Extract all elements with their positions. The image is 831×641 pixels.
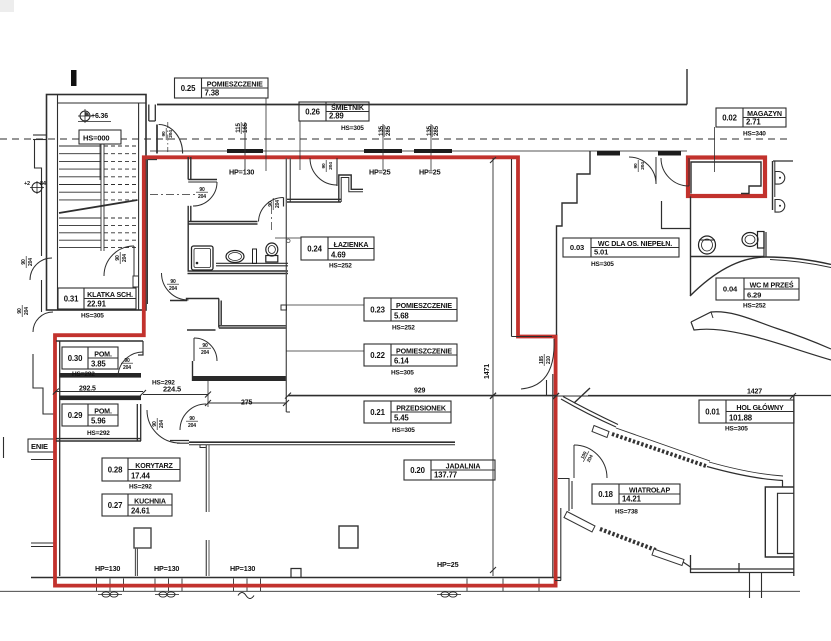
dim line 224.5 xyxy=(143,394,208,396)
window tick 3 xyxy=(430,124,432,170)
black wall right of red at wiatrolap xyxy=(560,508,562,581)
svg-text:204: 204 xyxy=(28,258,34,266)
wiatrolap upper curved wall xyxy=(561,399,616,427)
right outer wall top xyxy=(772,161,774,210)
svg-text:204: 204 xyxy=(328,162,334,170)
svg-text:0.02: 0.02 xyxy=(722,113,737,122)
svg-text:HP=25: HP=25 xyxy=(369,168,391,177)
glazing band long xyxy=(612,434,706,466)
window bar 2 xyxy=(364,149,402,153)
dim line 275 xyxy=(208,402,286,404)
wc south wall xyxy=(691,256,765,258)
left stub b xyxy=(31,542,54,544)
svg-text:0.27: 0.27 xyxy=(108,501,123,510)
svg-text:POM.: POM. xyxy=(94,350,112,358)
label 0.04 WC M PRZE xyxy=(716,278,799,300)
door room0.25 dim xyxy=(196,187,208,200)
thick bars divider bottom xyxy=(59,396,141,401)
wall y300 segment xyxy=(170,299,219,301)
svg-text:HS=305: HS=305 xyxy=(341,125,364,132)
svg-text:0.01: 0.01 xyxy=(705,407,720,416)
door room0.25 jamb xyxy=(188,179,217,181)
svg-text:0.23: 0.23 xyxy=(370,305,385,314)
kitchen partition lower xyxy=(205,540,207,576)
svg-text:JADALNIA: JADALNIA xyxy=(446,462,481,470)
svg-text:HS=305: HS=305 xyxy=(725,426,748,433)
washbasin xyxy=(226,251,244,263)
black wall left of red lower xyxy=(552,374,554,578)
wc partition below magazyn xyxy=(690,197,692,296)
left edge wall lower xyxy=(33,354,55,414)
label 0.21 PRZEDSIONEK xyxy=(364,401,451,423)
svg-text:137.77: 137.77 xyxy=(434,471,457,480)
shower tray xyxy=(192,246,214,270)
svg-text:165: 165 xyxy=(242,122,249,133)
korytarz north-extension wall xyxy=(170,441,189,444)
dim ticks xyxy=(53,389,59,395)
svg-text:HS=305: HS=305 xyxy=(591,261,614,268)
window bar 4 xyxy=(597,151,620,156)
svg-text:HP=25: HP=25 xyxy=(437,560,459,569)
stair top jog to main wall xyxy=(149,105,156,122)
svg-text:204: 204 xyxy=(169,286,177,292)
svg-text:HOL GŁÓWNY: HOL GŁÓWNY xyxy=(736,403,784,412)
label 0.02 MAGAZYN xyxy=(716,108,786,127)
HS=000 box xyxy=(79,130,121,144)
svg-text:5.01: 5.01 xyxy=(594,248,609,257)
sanitary south wall xyxy=(188,270,289,272)
main vertical wall x288 xyxy=(285,158,287,412)
toilet 1 xyxy=(266,243,278,262)
stair break line xyxy=(59,200,138,213)
entrance door centerline xyxy=(167,122,169,152)
wc top door 1 xyxy=(629,157,656,184)
svg-text:0.18: 0.18 xyxy=(598,490,613,499)
svg-text:5.96: 5.96 xyxy=(91,417,106,426)
lines descending below hol wall xyxy=(749,573,751,599)
sanitary door arc xyxy=(162,273,189,300)
svg-text:3.85: 3.85 xyxy=(91,360,106,369)
svg-text:HS=000: HS=000 xyxy=(83,134,109,143)
left stub a xyxy=(31,459,53,461)
svg-text:0.22: 0.22 xyxy=(370,351,385,360)
bathroom door arc xyxy=(259,198,284,222)
hol north wall from x588 xyxy=(588,395,831,397)
wall segment y330 left xyxy=(187,329,216,331)
label 0.26 SMIETNIK xyxy=(299,102,369,121)
leader 0.23 xyxy=(281,304,364,306)
svg-text:1471: 1471 xyxy=(484,364,491,379)
left edge line xyxy=(3,437,5,458)
leader lazienka xyxy=(275,237,301,239)
counter line xyxy=(216,262,288,264)
stair treads xyxy=(59,145,101,147)
hol curved wall arc xyxy=(690,257,831,296)
glazing mullion rect lower 1 xyxy=(564,512,595,533)
svg-text:285: 285 xyxy=(433,125,440,136)
wall y326 horizontal xyxy=(219,325,286,327)
svg-text:HS=252: HS=252 xyxy=(329,263,352,270)
dim line 292.5 xyxy=(55,391,143,393)
svg-text:204: 204 xyxy=(24,307,30,315)
svg-text:7.38: 7.38 xyxy=(205,89,220,98)
dim 115/165 rotated xyxy=(235,122,249,134)
label 0.30 POM xyxy=(62,347,118,369)
door 0.28 arc small xyxy=(180,404,206,430)
svg-text:HS=305: HS=305 xyxy=(81,313,104,320)
wall A vertical x189.5 xyxy=(187,157,189,180)
stair door arc xyxy=(104,246,134,276)
svg-text:HP=130: HP=130 xyxy=(230,564,255,573)
partition stub xyxy=(253,249,257,264)
inner black line along red right x511 xyxy=(512,159,553,337)
svg-text:204: 204 xyxy=(188,423,196,429)
window tick 2 xyxy=(382,124,384,170)
radiator 1 xyxy=(775,172,785,185)
korytarz/kuchnia wall y443 xyxy=(189,441,455,443)
stairwell outer box xyxy=(47,95,147,311)
svg-text:0.04: 0.04 xyxy=(723,285,738,294)
section mark I xyxy=(71,70,77,86)
dim 135/285 rotated a xyxy=(378,125,392,137)
pier C shape outer xyxy=(765,487,793,557)
entrance door arc xyxy=(159,125,183,154)
svg-text:HS=292: HS=292 xyxy=(129,484,152,491)
hol right wall xyxy=(793,396,795,576)
svg-text:204: 204 xyxy=(159,420,165,428)
stair door jamb xyxy=(133,246,135,276)
bottom dimension line xyxy=(0,590,800,592)
svg-text:0.31: 0.31 xyxy=(64,294,79,303)
svg-text:204: 204 xyxy=(168,130,174,138)
window tick 1 xyxy=(244,122,246,170)
top outer wall xyxy=(157,104,687,106)
svg-text:0.29: 0.29 xyxy=(68,411,83,420)
svg-text:1427: 1427 xyxy=(747,389,762,396)
label 0.20 JADALNIA xyxy=(404,460,495,480)
entrance door leaf xyxy=(156,125,158,154)
kitchen wall notch xyxy=(200,445,206,448)
window bar 3 xyxy=(414,149,452,153)
svg-text:204: 204 xyxy=(640,162,646,170)
svg-text:WC M PRZEŚ: WC M PRZEŚ xyxy=(750,280,794,289)
glazing band lower xyxy=(600,529,657,551)
label 0.24 LAZIENKA xyxy=(301,237,374,260)
svg-text:929: 929 xyxy=(414,388,425,395)
label 0.03 WC DLA OS NIEPELN xyxy=(563,238,679,257)
thick bars rooms 0.30/0.29 divider top xyxy=(59,373,141,378)
svg-text:4.69: 4.69 xyxy=(331,251,346,260)
svg-text:5.68: 5.68 xyxy=(394,312,409,321)
label 0.23 POMIESZCZENIE xyxy=(364,298,457,321)
svg-text:HP=130: HP=130 xyxy=(154,564,179,573)
label 0.01 HOL GLOWNY xyxy=(699,400,794,423)
wc small wall piece xyxy=(662,201,691,229)
level symbol +2.84 xyxy=(24,181,47,194)
svg-text:KLATKA SCH.: KLATKA SCH. xyxy=(87,291,133,299)
entrance door dim xyxy=(161,128,174,140)
wc toilet B xyxy=(742,232,764,249)
svg-text:0.24: 0.24 xyxy=(307,244,322,253)
stair door dim xyxy=(115,252,128,264)
bathroom north wall xyxy=(188,221,257,223)
left outside door 1 arc xyxy=(30,258,52,280)
wc toilet A xyxy=(699,236,716,254)
door 0.22 arc xyxy=(194,338,217,361)
svg-text:204: 204 xyxy=(198,194,206,200)
svg-text:HS=252: HS=252 xyxy=(392,325,415,332)
radiator 2 xyxy=(775,200,785,213)
left outside door 2 dim xyxy=(17,305,30,317)
svg-text:285: 285 xyxy=(385,125,392,136)
dim 135/285 rotated b xyxy=(426,125,440,137)
pier near kitchen bottom xyxy=(134,528,151,548)
wiatrolap lower wall xyxy=(558,479,572,512)
svg-text:101.88: 101.88 xyxy=(729,414,753,423)
label 0.18 WIATROLAP xyxy=(592,484,680,504)
svg-text:KORYTARZ: KORYTARZ xyxy=(135,462,173,470)
magazyn room walls xyxy=(691,162,761,194)
glazing mullion rect lower 2 xyxy=(652,549,684,566)
svg-text:0.28: 0.28 xyxy=(108,465,123,474)
red premises outline xyxy=(55,157,556,585)
leader 0.25 room xyxy=(265,98,267,171)
svg-text:14.21: 14.21 xyxy=(622,495,642,504)
svg-text:2.71: 2.71 xyxy=(746,118,761,127)
stairwell inner walls xyxy=(57,95,59,311)
svg-text:0.21: 0.21 xyxy=(370,408,385,417)
wall stub left of red at hol xyxy=(546,380,548,396)
svg-text:5.45: 5.45 xyxy=(394,414,409,423)
svg-text:210: 210 xyxy=(546,356,552,364)
svg-text:WIATROŁAP: WIATROŁAP xyxy=(629,486,670,494)
bathroom door dim rotated xyxy=(268,198,281,210)
red magazyn box xyxy=(688,158,765,197)
svg-text:HS=738: HS=738 xyxy=(615,509,638,516)
room 0.30 north wall xyxy=(56,340,143,342)
svg-text:275: 275 xyxy=(241,400,252,407)
pier C shape inner xyxy=(778,493,794,553)
svg-text:2.89: 2.89 xyxy=(329,112,344,121)
room 0.29 east wall xyxy=(136,404,138,441)
top boundary vertical xyxy=(686,69,688,105)
left outside door 1 dim xyxy=(21,256,34,268)
wall A lower xyxy=(187,206,189,271)
svg-text:24.61: 24.61 xyxy=(131,507,151,516)
smietnik entry door arc xyxy=(310,158,337,185)
label 0.28 KORYTARZ xyxy=(102,458,180,481)
svg-text:HS=292: HS=292 xyxy=(72,371,95,378)
wc top door 2 xyxy=(661,158,689,186)
svg-text:292.5: 292.5 xyxy=(79,386,96,393)
glazing mullion rect upper xyxy=(592,426,609,438)
leader from HS box xyxy=(99,144,101,180)
left outside wall vertical xyxy=(35,140,42,257)
stair flight divider xyxy=(100,141,102,251)
svg-text:0.25: 0.25 xyxy=(181,84,196,93)
svg-text:POM.: POM. xyxy=(94,407,112,415)
break symbol 3 xyxy=(238,593,254,599)
svg-text:ENIE: ENIE xyxy=(31,442,48,451)
corner gray patch xyxy=(0,0,14,12)
door room0.25 arc xyxy=(193,182,217,206)
bottom wall bump xyxy=(291,569,301,578)
hol bottom walls xyxy=(690,568,794,570)
svg-text:0.30: 0.30 xyxy=(68,354,83,363)
svg-text:POMIESZCZENIE: POMIESZCZENIE xyxy=(207,80,263,88)
svg-text:HP=130: HP=130 xyxy=(95,564,120,573)
wc east walls xyxy=(764,232,766,257)
svg-text:204: 204 xyxy=(122,254,128,262)
break symbol 4 xyxy=(437,592,461,597)
inner wall left vertical x60 xyxy=(59,341,61,576)
svg-text:KUCHNIA: KUCHNIA xyxy=(134,497,166,505)
window bar 1 xyxy=(227,149,263,153)
room 0.29 south wall xyxy=(56,438,141,440)
jadalnia column xyxy=(339,526,358,548)
svg-text:6.29: 6.29 xyxy=(747,291,761,300)
kitchen partition x207.5 xyxy=(205,445,207,512)
section slash xyxy=(574,388,590,403)
svg-text:0.26: 0.26 xyxy=(305,107,320,116)
svg-text:22.91: 22.91 xyxy=(87,300,107,309)
label 0.22 POMIESZCZENIE xyxy=(364,344,457,366)
arc inner line right end xyxy=(770,260,831,268)
svg-text:POMIESZCZENIE: POMIESZCZENIE xyxy=(396,302,452,310)
thick wall below 0.22 xyxy=(192,376,286,381)
wall 0.22 left vertical xyxy=(192,361,194,381)
svg-text:HS=305: HS=305 xyxy=(392,427,415,434)
wall x220 vertical xyxy=(218,299,220,328)
svg-text:17.44: 17.44 xyxy=(131,472,151,481)
wavy ribbon xyxy=(691,312,831,349)
left outside wall stub top xyxy=(33,134,47,136)
svg-text:204: 204 xyxy=(123,365,131,371)
level symbol +6.36 xyxy=(78,109,111,123)
right horizontal line xyxy=(773,160,793,162)
inner window wall line xyxy=(150,150,687,152)
svg-text:204: 204 xyxy=(201,350,209,356)
svg-text:HP=25: HP=25 xyxy=(419,168,441,177)
window bar 5 xyxy=(658,151,681,156)
inner wall face below red corner xyxy=(146,160,148,305)
svg-text:HS=340: HS=340 xyxy=(743,131,766,138)
label 0.31 KLATKA SCH xyxy=(58,288,136,309)
svg-text:204: 204 xyxy=(275,200,281,208)
svg-text:6.14: 6.14 xyxy=(394,357,409,366)
leader smietnik xyxy=(299,121,301,170)
dashed property line xyxy=(0,138,790,140)
stair door jamb block xyxy=(133,276,139,287)
magazyn leader xyxy=(714,127,716,172)
left outside wall mid xyxy=(41,280,43,312)
svg-text:0.03: 0.03 xyxy=(570,243,584,252)
door korytarz arc xyxy=(147,410,180,443)
wiatrolap door arc xyxy=(574,445,607,478)
label 0.27 KUCHNIA xyxy=(102,494,172,516)
wall y396 przedsionek north xyxy=(288,395,556,397)
smietnik west wall xyxy=(287,198,341,200)
jadalnia door at red wall xyxy=(521,339,554,389)
svg-text:HP=130: HP=130 xyxy=(229,168,254,177)
svg-text:POMIESZCZENIE: POMIESZCZENIE xyxy=(396,347,452,355)
wc zigzag wall left xyxy=(557,151,591,335)
svg-text:224.5: 224.5 xyxy=(163,385,181,394)
bottom window ticks xyxy=(96,579,98,592)
svg-text:HS=252: HS=252 xyxy=(743,303,766,310)
break symbol 1 xyxy=(98,592,122,597)
svg-text:+6.36: +6.36 xyxy=(91,113,108,120)
room 0.30 door arc xyxy=(118,352,143,377)
label 0.29 POM xyxy=(62,404,118,426)
tie to hol wall xyxy=(683,562,691,567)
svg-text:WC DLA OS. NIEPEŁN.: WC DLA OS. NIEPEŁN. xyxy=(598,240,672,248)
leader 0.22 xyxy=(286,350,364,352)
svg-text:PRZEDSIONEK: PRZEDSIONEK xyxy=(396,404,447,412)
smietnik enclosure xyxy=(339,175,363,202)
left outside door 2 arc xyxy=(33,312,53,332)
1427 dimension line xyxy=(556,395,794,397)
1471 leader line xyxy=(492,158,494,576)
label 0.25 POMIESZCZENIE xyxy=(175,78,269,98)
small nib on wall xyxy=(281,305,287,310)
svg-text:HS=305: HS=305 xyxy=(391,370,414,377)
hol curve to pier xyxy=(707,467,783,481)
svg-text:0.20: 0.20 xyxy=(410,466,425,475)
svg-text:HS=292: HS=292 xyxy=(87,430,110,437)
curve step to pier xyxy=(782,481,784,487)
break symbol 2 xyxy=(155,592,179,597)
svg-text:ŁAZIENKA: ŁAZIENKA xyxy=(334,241,369,249)
bottom outer wall xyxy=(31,577,561,579)
svg-text:+2: +2 xyxy=(24,181,30,187)
partial label ENIE xyxy=(28,439,56,452)
